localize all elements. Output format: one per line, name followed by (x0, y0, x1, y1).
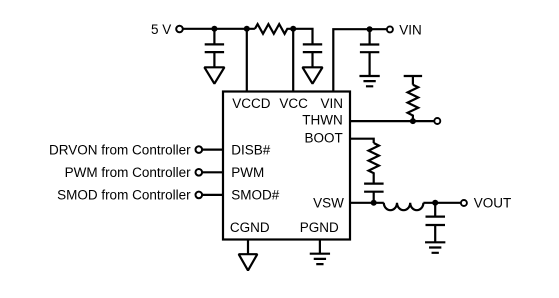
junction THWN (410, 118, 416, 124)
svg-text:VIN: VIN (320, 96, 343, 111)
terminal 5V (176, 26, 183, 33)
terminal VIN (387, 26, 393, 32)
ground (earth) at C5 (425, 242, 445, 253)
wire PGND lead (319, 240, 321, 254)
resistor R3 (369, 143, 379, 184)
ground (open triangle) CGND (239, 254, 258, 270)
wire DISB# (202, 149, 223, 151)
resistor R2 (404, 76, 422, 121)
capacitor C5 (426, 217, 446, 225)
ground (open triangle) at C1 (204, 67, 224, 83)
capacitor C3 (360, 45, 379, 53)
terminal PWM (196, 169, 203, 176)
terminal VOUT (461, 200, 467, 206)
wire THWN (350, 120, 434, 122)
wire C4 to VSW (373, 192, 375, 203)
wire C5 bottom lead (434, 225, 436, 242)
inductor L1 (384, 203, 424, 210)
svg-text:VOUT: VOUT (474, 196, 512, 211)
svg-text:PGND: PGND (300, 220, 339, 235)
wire C3 bottom lead (369, 52, 371, 76)
wire VIN riser (333, 29, 387, 92)
wire CGND lead (247, 240, 249, 254)
wire PWM (202, 171, 223, 173)
wire VCCD pin lead (246, 29, 248, 92)
IC U1 body (223, 92, 350, 240)
resistor R1 (255, 24, 293, 34)
junction VIN (367, 26, 373, 32)
terminal THWN (434, 118, 440, 124)
ground (earth) at C3 (359, 76, 379, 86)
svg-text:VIN: VIN (399, 22, 422, 37)
svg-text:BOOT: BOOT (305, 130, 343, 145)
svg-text:PWM: PWM (231, 165, 264, 180)
terminal SMOD# (196, 192, 203, 199)
junction VOUT (432, 200, 438, 206)
svg-text:CGND: CGND (230, 220, 270, 235)
capacitor C4 (364, 184, 384, 192)
junction VSW (371, 200, 377, 206)
svg-text:VCC: VCC (279, 96, 308, 111)
wire C1 top lead (213, 29, 215, 45)
wire C2 bottom lead (311, 52, 313, 67)
svg-text:VCCD: VCCD (232, 96, 271, 111)
wire SMOD# (202, 194, 223, 196)
svg-text:5 V: 5 V (151, 22, 171, 37)
svg-text:DISB#: DISB# (231, 142, 271, 157)
junction at C1 (211, 26, 217, 32)
wire rail to C2 (293, 29, 312, 45)
wire 5V rail (183, 28, 255, 30)
capacitor C2 (303, 44, 322, 52)
terminal DISB# (196, 146, 203, 153)
wire VSW (350, 202, 384, 204)
wire L1 to VOUT (423, 202, 460, 204)
capacitor C1 (205, 44, 224, 52)
wire C5 top lead (434, 203, 436, 217)
ground (open triangle) at C2 (303, 67, 323, 83)
junction VCCD (244, 26, 250, 32)
wire VCC pin lead (292, 29, 294, 92)
wire C3 top lead (369, 29, 371, 44)
ground (earth) PGND (310, 254, 330, 264)
svg-text:PWM from Controller: PWM from Controller (65, 165, 192, 180)
wire BOOT (350, 139, 374, 143)
svg-text:DRVON from Controller: DRVON from Controller (49, 142, 191, 157)
wire C1 bottom lead (213, 52, 215, 67)
svg-text:SMOD from Controller: SMOD from Controller (57, 188, 191, 203)
svg-text:SMOD#: SMOD# (231, 188, 279, 203)
svg-text:THWN: THWN (302, 112, 343, 127)
junction VCC (290, 26, 296, 32)
svg-text:VSW: VSW (313, 196, 344, 211)
